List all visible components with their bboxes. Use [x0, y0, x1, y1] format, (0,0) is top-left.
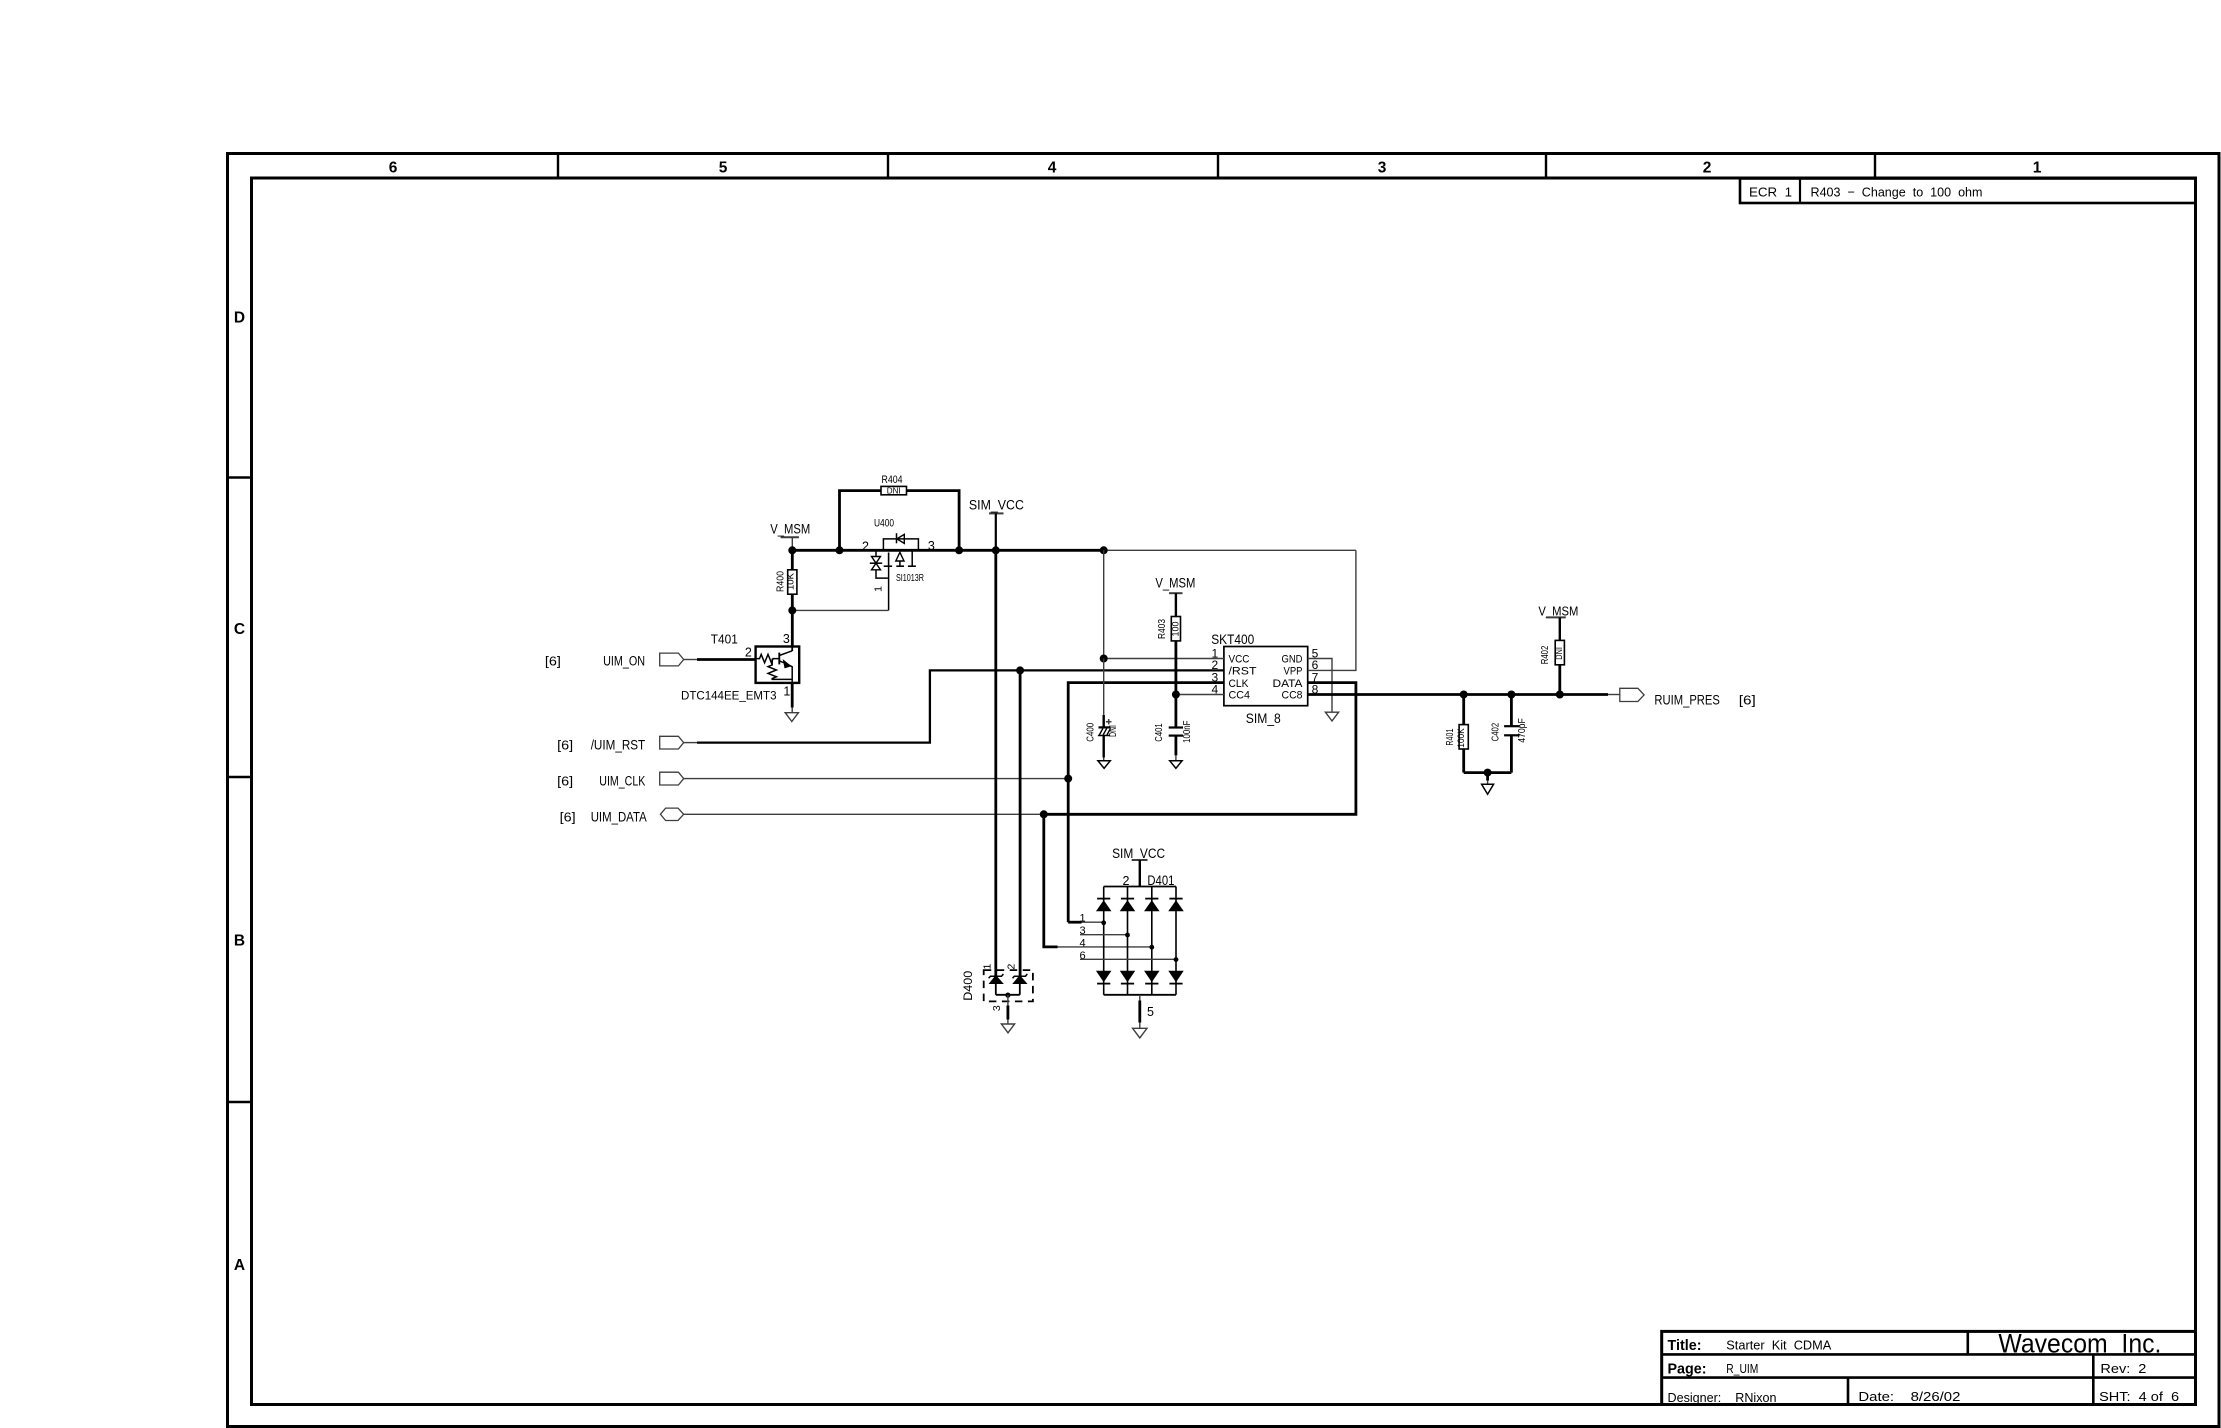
ground under D401: [1133, 1028, 1147, 1038]
wire SKT400 pin4 CC4 lead: [1176, 694, 1224, 696]
wire SKT400 pin1 VCC branch: [1104, 550, 1224, 658]
junction D400 common: [1005, 993, 1010, 998]
svg-text:D401: D401: [1147, 873, 1174, 888]
wire R403 to CC4/C401: [1175, 641, 1178, 728]
svg-text:CC4: CC4: [1229, 690, 1251, 702]
svg-text:1: 1: [783, 684, 790, 698]
svg-text:D: D: [234, 310, 245, 327]
svg-text:CC8: CC8: [1282, 690, 1303, 702]
svg-text:Starter Kit CDMA: Starter Kit CDMA: [1726, 1338, 1831, 1353]
svg-text:3: 3: [1378, 160, 1387, 177]
svg-text:5: 5: [719, 160, 728, 177]
svg-text:DNI: DNI: [887, 486, 901, 496]
wire SKT400 pin5 GND: [1308, 659, 1332, 713]
svg-text:V_MSM: V_MSM: [1538, 603, 1578, 618]
power flag V_MSM (R403): [1155, 576, 1195, 617]
svg-text:SIM_VCC: SIM_VCC: [1112, 846, 1165, 861]
svg-text:Wavecom Inc.: Wavecom Inc.: [1998, 1329, 2161, 1359]
svg-text:100nF: 100nF: [1182, 721, 1193, 743]
junction VCC / C400: [1100, 655, 1108, 663]
svg-text:ECR 1: ECR 1: [1749, 185, 1792, 200]
title block: [1662, 1329, 2196, 1405]
svg-text:SI1013R: SI1013R: [896, 573, 924, 584]
wire gate of U400 to R400 node: [792, 609, 888, 611]
wire D400 pin 3 to ground: [991, 995, 1008, 1024]
pin 3 stub D401: [1079, 925, 1127, 937]
wire SKT400 pin3 CLK: [1068, 683, 1224, 923]
svg-text:/UIM_RST: /UIM_RST: [591, 738, 646, 753]
wire T401 emitter to ground: [791, 683, 794, 713]
svg-text:1: 1: [873, 586, 885, 592]
svg-text:DATA: DATA: [1273, 678, 1304, 690]
svg-text:A: A: [234, 1257, 245, 1274]
junction D401 pin4/col3: [1149, 945, 1154, 950]
resistor R401 100K: [1445, 695, 1468, 773]
svg-text:3: 3: [783, 632, 790, 646]
svg-text:C: C: [234, 621, 245, 638]
svg-text:Page:: Page:: [1668, 1361, 1707, 1378]
svg-text:2: 2: [745, 645, 752, 659]
svg-text:5: 5: [1147, 1005, 1154, 1019]
svg-text:UIM_DATA: UIM_DATA: [591, 809, 647, 824]
wire UIM_CLK horizontal: [684, 778, 1069, 780]
svg-text:470pF: 470pF: [1517, 718, 1528, 743]
svg-text:R404: R404: [882, 474, 903, 486]
wire SIM_VCC horizontal rail: [791, 549, 1356, 552]
ground under C401: [1170, 761, 1182, 769]
svg-text:R403 − Change to 100 ohm: R403 − Change to 100 ohm: [1811, 185, 1983, 200]
svg-text:C400: C400: [1085, 723, 1096, 742]
svg-text:100K: 100K: [1456, 728, 1466, 748]
svg-text:T401: T401: [711, 632, 738, 647]
svg-text:DNI: DNI: [1554, 647, 1564, 660]
svg-text:RUIM_PRES: RUIM_PRES: [1654, 693, 1720, 708]
wire SKT400 pin6 VPP to SIM_VCC: [1308, 550, 1356, 670]
svg-text:4: 4: [1079, 937, 1085, 949]
svg-text:1: 1: [1079, 913, 1085, 925]
capacitor C402 470pF: [1491, 695, 1529, 773]
svg-text:[6]: [6]: [1739, 693, 1756, 708]
connector SKT400 SIM_8: [1211, 632, 1318, 726]
ground under T401: [785, 713, 798, 722]
svg-text:2: 2: [862, 540, 869, 554]
svg-text:SIM_VCC: SIM_VCC: [969, 497, 1024, 512]
svg-text:CLK: CLK: [1229, 678, 1250, 690]
svg-text:VCC: VCC: [1229, 654, 1250, 666]
junction D401 pin6/col4: [1174, 957, 1179, 962]
power flag SIM_VCC (D401): [1112, 846, 1165, 887]
svg-text:Rev: 2: Rev: 2: [2100, 1361, 2146, 1376]
svg-text:B: B: [234, 933, 245, 950]
junction SIM_VCC stub: [992, 546, 1000, 554]
junction VCC branch: [1100, 546, 1108, 554]
junction D401 pin1/col1: [1101, 920, 1106, 925]
svg-text:C402: C402: [1491, 722, 1502, 741]
port UIM_CLK [6]: [557, 772, 684, 788]
wire R400 node to T401 pin 3: [791, 610, 794, 646]
junction R401 top: [1460, 691, 1468, 699]
capacitor C401 100nF: [1154, 721, 1193, 761]
svg-text:UIM_ON: UIM_ON: [603, 653, 645, 668]
svg-text:Title:: Title:: [1668, 1338, 1702, 1354]
resistor R400 10K: [776, 550, 797, 610]
svg-text:[6]: [6]: [545, 653, 561, 668]
power flag V_MSM (left): [770, 521, 810, 550]
transistor T401 DTC144EE_EMT3: [681, 632, 799, 703]
resistor R404 DNI: [840, 474, 960, 550]
svg-text:SHT: 4 of 6: SHT: 4 of 6: [2099, 1389, 2179, 1404]
junction UIM_DATA / D401 branch: [1040, 810, 1048, 818]
svg-text:R401: R401: [1445, 728, 1456, 745]
svg-text:VPP: VPP: [1284, 666, 1303, 678]
wire UIM_DATA horizontal: [684, 813, 1044, 815]
junction R402 bottom: [1556, 691, 1564, 699]
svg-text:4: 4: [1048, 160, 1057, 177]
svg-text:R403: R403: [1157, 619, 1168, 639]
svg-text:[6]: [6]: [557, 738, 573, 753]
svg-text:DNI: DNI: [1108, 725, 1119, 737]
svg-text:R402: R402: [1540, 645, 1551, 664]
ground under D400: [1001, 1024, 1014, 1033]
wire UIM_DATA to D401 pin 4: [1044, 814, 1152, 947]
wire D401 pin 5 to ground: [1140, 995, 1154, 1029]
svg-text:UIM_CLK: UIM_CLK: [599, 774, 645, 789]
wire /UIM_RST to SKT400 pin 2: [684, 670, 1224, 742]
wire UIM_CLK to D401 pin 1: [1068, 921, 1104, 924]
resistor R403 100: [1157, 617, 1181, 641]
wire /UIM_RST to D400 pin 2: [1019, 670, 1022, 976]
svg-text:DTC144EE_EMT3: DTC144EE_EMT3: [681, 689, 777, 703]
junction C402 top: [1507, 691, 1515, 699]
svg-text:SIM_8: SIM_8: [1246, 711, 1281, 726]
svg-text:V_MSM: V_MSM: [1155, 576, 1195, 591]
port UIM_DATA [6]: [560, 808, 684, 824]
resistor R402 DNI: [1540, 640, 1565, 694]
svg-text:3: 3: [991, 1005, 1003, 1011]
svg-text:6: 6: [389, 160, 398, 177]
junction R404 left leg: [836, 546, 844, 554]
svg-text:2: 2: [1703, 160, 1712, 177]
wire RUIM_PRES from SKT400 pin8: [1308, 693, 1620, 696]
pin 6 stub D401: [1079, 950, 1176, 962]
svg-text:[6]: [6]: [560, 809, 576, 824]
transistor U400 SI1013R: [862, 517, 935, 610]
svg-text:2: 2: [1006, 964, 1018, 970]
junction /UIM_RST / D400 branch: [1016, 666, 1024, 674]
svg-text:U400: U400: [874, 517, 894, 529]
svg-text:1: 1: [2033, 160, 2042, 177]
svg-text:10K: 10K: [786, 573, 796, 590]
junction R404 right leg: [955, 546, 963, 554]
port UIM_ON [6]: [545, 653, 684, 668]
port /UIM_RST [6]: [557, 736, 684, 752]
junction R400 bottom / gate: [788, 606, 796, 614]
svg-text:/RST: /RST: [1229, 666, 1257, 678]
wire SIM_VCC to D400 pin 1: [994, 550, 997, 976]
svg-text:SKT400: SKT400: [1211, 632, 1254, 647]
port RUIM_PRES [6]: [1620, 688, 1756, 707]
svg-text:V_MSM: V_MSM: [770, 521, 810, 536]
power flag SIM_VCC (top): [969, 497, 1024, 550]
svg-text:1: 1: [982, 964, 994, 970]
junction UIM_CLK / CLK vertical: [1064, 775, 1072, 783]
wire UIM_ON to T401 pin 2: [684, 659, 756, 661]
svg-text:Date: 8/26/02: Date: 8/26/02: [1858, 1389, 1960, 1404]
svg-text:[6]: [6]: [557, 774, 573, 789]
wire stub to ground: [1486, 773, 1489, 785]
ground at SKT400 pin 5: [1325, 712, 1338, 721]
wire R401/C402 ground rail: [1464, 771, 1512, 774]
svg-text:R_UIM: R_UIM: [1726, 1361, 1758, 1376]
ground under C400: [1098, 761, 1110, 769]
junction V_MSM/R400/rail: [788, 546, 796, 554]
junction ground rail: [1484, 769, 1492, 777]
diode array D401: [1097, 873, 1183, 995]
ground under R401/C402: [1482, 784, 1494, 794]
ECR note table: [1740, 179, 2196, 204]
svg-text:100: 100: [1171, 622, 1181, 637]
svg-text:3: 3: [928, 539, 935, 553]
svg-text:Designer: RNixon: Designer: RNixon: [1668, 1390, 1777, 1405]
wire SKT400 pin7 DATA loop: [1044, 683, 1356, 815]
svg-text:D400: D400: [961, 970, 975, 1000]
svg-text:C401: C401: [1154, 723, 1165, 742]
junction CC4 / R403 / C401: [1172, 691, 1180, 699]
svg-text:GND: GND: [1282, 654, 1303, 666]
power flag V_MSM (R402): [1538, 603, 1578, 640]
junction D401 pin3/col2: [1125, 933, 1130, 938]
diode D400 dual zener: [961, 964, 1033, 1002]
capacitor C400 DNI: [1085, 659, 1119, 761]
